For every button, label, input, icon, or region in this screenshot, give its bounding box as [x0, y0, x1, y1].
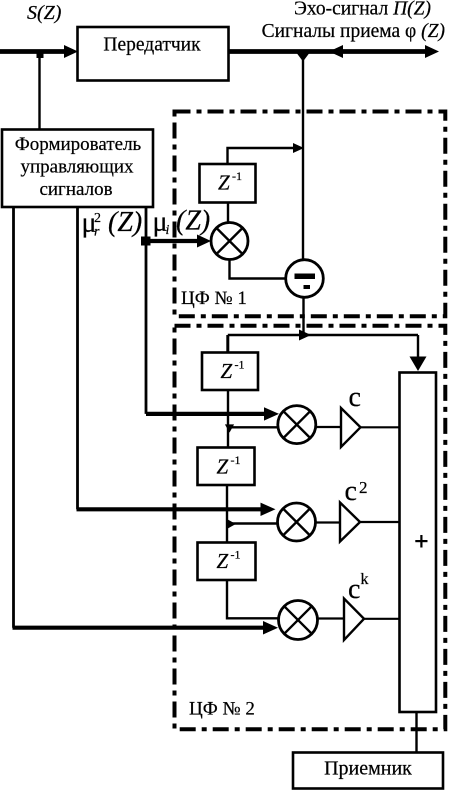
- svg-text:Z: Z: [218, 171, 230, 195]
- wire M2 to amplifier A2: [316, 521, 342, 523]
- svg-text:c: c: [349, 382, 361, 413]
- wire A2 to summer: [360, 521, 399, 523]
- wire A1 to summer: [361, 426, 400, 428]
- label c^2: [345, 476, 368, 507]
- svg-text:Передатчик: Передатчик: [103, 35, 201, 56]
- amplifier A2: [340, 503, 360, 542]
- arrowhead into summer top: [410, 357, 427, 372]
- svg-text:Формирователь: Формирователь: [15, 134, 142, 155]
- wire M0 to subtractor: [230, 260, 287, 279]
- svg-text:-1: -1: [232, 169, 242, 183]
- wire input to transmitter: [0, 45, 78, 58]
- label Сигналы приема φ(Z): [262, 21, 445, 42]
- node tap2: [227, 519, 236, 528]
- multiplier M1: [278, 406, 316, 444]
- svg-text:(Z): (Z): [176, 206, 210, 237]
- wire mu_i to multiplier M0: [146, 235, 211, 248]
- node junction mu_i: [141, 237, 151, 246]
- label ЦФ № 2: [189, 699, 255, 720]
- wire tap1 to M1: [228, 426, 279, 428]
- wire junction down to generator: [38, 52, 40, 130]
- svg-text:-1: -1: [231, 453, 241, 467]
- label c^k: [348, 571, 369, 605]
- svg-text:-1: -1: [235, 358, 245, 372]
- svg-text:c: c: [345, 476, 357, 507]
- label ЦФ № 1: [181, 288, 247, 309]
- wire mu_k control line (leftmost): [13, 207, 279, 635]
- wire M1 to amplifier A1: [316, 426, 342, 428]
- wire chain D3 to M3: [227, 580, 279, 618]
- svg-text:сигналов: сигналов: [39, 179, 112, 200]
- arrowhead left (receive direction): [329, 45, 343, 58]
- svg-text:-1: -1: [231, 548, 241, 562]
- wire distribution line in ЦФ2: [228, 335, 418, 358]
- wire delay D0 to M0: [227, 202, 229, 223]
- block Z^-1 delay D0: [200, 164, 256, 203]
- svg-text:Z: Z: [217, 455, 229, 479]
- svg-text:Эхо-сигнал П(Z): Эхо-сигнал П(Z): [294, 0, 431, 20]
- wire A3 to summer: [364, 618, 399, 620]
- multiplier M0: [211, 223, 248, 260]
- amplifier A3: [344, 599, 364, 641]
- block Z^-1 delay D3: [198, 543, 256, 581]
- svg-text:Приемник: Приемник: [324, 758, 412, 780]
- wire mu_i control line: [145, 207, 148, 414]
- multiplier M2: [278, 503, 316, 541]
- amplifier A1: [341, 408, 361, 447]
- label mu_i (Z): [153, 206, 211, 239]
- svg-text:S(Z): S(Z): [27, 2, 62, 24]
- wire mu to multiplier M1: [146, 407, 279, 420]
- block Формирователь управляющих сигналов: [2, 130, 153, 208]
- wire chain D1 to D2: [227, 390, 229, 447]
- label mu_r^2 (Z): [82, 207, 143, 240]
- block Приемник: [293, 753, 443, 789]
- svg-text:(Z): (Z): [108, 207, 142, 238]
- summer block +: [400, 373, 437, 713]
- svg-text:k: k: [361, 571, 369, 588]
- svg-text:i: i: [166, 223, 170, 238]
- block Передатчик U1: [78, 27, 229, 81]
- wire summer to receiver: [415, 712, 417, 752]
- svg-text:c: c: [348, 574, 360, 605]
- block Z^-1 delay D2: [198, 448, 255, 486]
- svg-text:ЦФ № 1: ЦФ № 1: [181, 288, 247, 309]
- svg-text:ЦФ № 2: ЦФ № 2: [189, 699, 255, 720]
- svg-text:Сигналы приема φ (Z): Сигналы приема φ (Z): [262, 21, 445, 42]
- svg-text:Z: Z: [217, 549, 229, 573]
- svg-text:2: 2: [359, 478, 368, 497]
- wire tap down to subtractor: [302, 54, 304, 261]
- subtractor S1: [286, 260, 324, 298]
- svg-text:Z: Z: [221, 359, 233, 383]
- wire M3 to amplifier A3: [318, 617, 346, 619]
- wire delay D0 top to receive line: [228, 143, 305, 164]
- arrowhead right (to line): [425, 45, 439, 58]
- box ЦФ №2 dash-dot frame: [175, 326, 446, 730]
- node junction input/generator: [37, 52, 44, 59]
- block Z^-1 delay D1: [202, 353, 258, 391]
- svg-text:2: 2: [94, 211, 101, 226]
- label Эхо-сигнал П(Z): [294, 0, 431, 20]
- wire tap2 to M2: [227, 522, 278, 524]
- svg-text:r: r: [94, 225, 100, 240]
- svg-text:управляющих: управляющих: [20, 157, 134, 178]
- wire subtractor down into ЦФ2: [302, 297, 304, 336]
- node junction distribution: [299, 330, 311, 341]
- node tap1: [225, 424, 234, 432]
- node tap on line to echo canceller: [297, 54, 309, 62]
- box ЦФ №1 dash-dot frame: [175, 112, 446, 317]
- multiplier M3: [279, 601, 318, 640]
- wire mu_2 control line: [77, 207, 276, 516]
- wire chain D2 to D3: [226, 485, 228, 542]
- label c: [349, 382, 361, 413]
- label S(Z): [27, 2, 62, 24]
- wire transmitter output line: [229, 49, 433, 54]
